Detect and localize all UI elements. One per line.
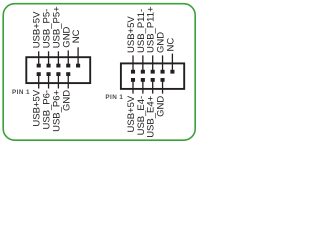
svg-text:GND: GND [61, 90, 72, 111]
svg-text:PIN 1: PIN 1 [105, 94, 123, 101]
svg-text:GND: GND [156, 96, 167, 117]
svg-text:NC: NC [71, 29, 82, 43]
svg-text:NC: NC [165, 38, 176, 52]
svg-text:PIN 1: PIN 1 [12, 89, 30, 96]
